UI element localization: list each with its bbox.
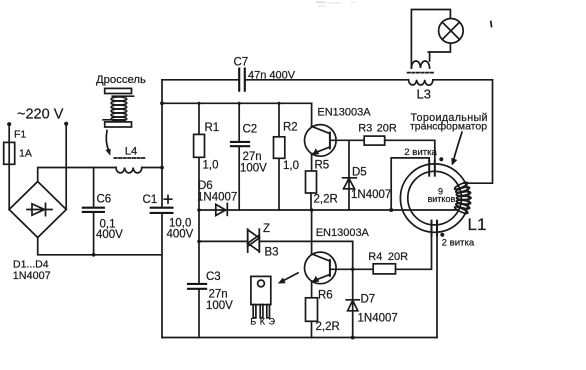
capacitor C6 xyxy=(93,168,95,255)
svg-text:27n: 27n xyxy=(209,289,228,301)
resistor R1 xyxy=(198,103,200,210)
diode D6 xyxy=(216,204,226,215)
label C1 plus xyxy=(164,196,171,204)
svg-text:1N4007: 1N4007 xyxy=(358,313,398,325)
svg-text:витков: витков xyxy=(428,194,456,204)
choke coil xyxy=(111,97,127,121)
svg-text:2 витка: 2 витка xyxy=(404,147,437,158)
svg-text:1N4007: 1N4007 xyxy=(197,192,237,204)
wire AC left to fuse xyxy=(8,124,10,209)
L3 rail right xyxy=(433,79,493,81)
wire AC right xyxy=(65,124,67,210)
svg-text:R4: R4 xyxy=(368,251,382,263)
transistor Q1 EN13003A xyxy=(305,125,337,157)
svg-text:47n 400V: 47n 400V xyxy=(248,69,296,81)
svg-text:R5: R5 xyxy=(315,160,330,172)
choke lead top xyxy=(112,95,133,97)
inductor L4 xyxy=(116,168,142,173)
diac B3 xyxy=(248,229,260,252)
wire L4 to bus xyxy=(142,167,162,169)
toroid 9-turn coil xyxy=(454,181,471,214)
svg-text:B3: B3 xyxy=(265,247,279,259)
svg-text:D5: D5 xyxy=(352,167,367,179)
node phasing dot top xyxy=(439,157,443,161)
svg-text:L4: L4 xyxy=(125,145,138,157)
toroid bottom leads xyxy=(436,235,438,337)
toroid bottom winding ticks xyxy=(432,221,438,236)
bridge rectifier D1...D4 xyxy=(9,182,66,238)
choke lead bottom xyxy=(103,119,124,121)
svg-text:1,0: 1,0 xyxy=(203,160,219,172)
arrow to Q2 xyxy=(282,273,298,281)
diode D5 xyxy=(343,140,357,210)
speck xyxy=(490,22,493,27)
resistor R6 xyxy=(306,298,318,322)
svg-text:Дроссель: Дроссель xyxy=(96,74,146,86)
smudge xyxy=(316,1,356,7)
node Q2 base junction xyxy=(351,268,355,272)
svg-text:D7: D7 xyxy=(361,294,376,306)
core dashes L4 xyxy=(114,157,145,159)
svg-text:C1: C1 xyxy=(143,194,158,206)
C7 rail top xyxy=(162,79,409,81)
mid line xyxy=(199,209,458,211)
svg-text:C6: C6 xyxy=(97,194,112,206)
svg-text:Z: Z xyxy=(263,223,270,235)
svg-text:L3: L3 xyxy=(417,87,431,102)
diode D7 xyxy=(346,269,359,337)
svg-text:C7: C7 xyxy=(234,57,249,69)
resistor R3 xyxy=(364,136,385,145)
lamp secondary winding xyxy=(411,61,429,68)
svg-text:R6: R6 xyxy=(318,290,333,302)
arrow choke to L4 xyxy=(106,131,109,152)
inductor L3 xyxy=(409,80,433,85)
svg-text:1N4007: 1N4007 xyxy=(351,189,391,201)
resistor R4 xyxy=(373,264,395,274)
base wire Q2 xyxy=(330,268,373,270)
node toroid tap xyxy=(389,208,393,212)
node bus plus rail xyxy=(160,166,164,170)
node R1 mid xyxy=(197,208,201,212)
svg-text:C2: C2 xyxy=(243,124,258,136)
lamp loop wires xyxy=(411,10,450,69)
svg-text:100V: 100V xyxy=(206,300,233,312)
toroid L1 ring xyxy=(400,164,468,232)
node mains terminal L xyxy=(7,122,11,126)
vertical R1-B3-C3 xyxy=(198,210,200,338)
node C2 rail2 xyxy=(238,102,241,105)
svg-text:2,2R: 2,2R xyxy=(316,321,340,333)
svg-text:~220 V: ~220 V xyxy=(17,107,64,123)
capacitor C7 xyxy=(239,69,245,91)
resistor R5 xyxy=(306,171,317,193)
capacitor C1 xyxy=(151,208,173,213)
core dashes L3 xyxy=(408,72,435,74)
svg-text:400V: 400V xyxy=(96,229,123,241)
svg-text:F1: F1 xyxy=(14,129,26,141)
svg-text:1,0: 1,0 xyxy=(283,160,299,172)
toroid top-left lead xyxy=(391,158,429,210)
svg-text:400V: 400V xyxy=(167,229,194,241)
rail2 collector rail xyxy=(162,102,312,104)
node B3 junction xyxy=(197,240,201,244)
svg-text:1A: 1A xyxy=(19,148,32,160)
choke bottom flange xyxy=(105,122,132,127)
svg-text:Б К Э: Б К Э xyxy=(250,317,275,327)
node R1 rail2 xyxy=(197,102,200,105)
diac B3 wire xyxy=(199,241,353,269)
svg-text:100V: 100V xyxy=(240,163,267,175)
node bus rail2 xyxy=(160,101,164,105)
svg-text:2,2R: 2,2R xyxy=(314,194,338,206)
svg-text:C3: C3 xyxy=(206,271,221,283)
svg-text:20R: 20R xyxy=(377,122,397,134)
arrow to toroid xyxy=(453,132,462,161)
svg-text:2 витка: 2 витка xyxy=(442,237,475,248)
node C6 bottom xyxy=(92,253,96,257)
wire bridge top to plus rail xyxy=(38,168,116,182)
svg-text:R2: R2 xyxy=(283,122,298,134)
base wire Q1 xyxy=(330,139,364,141)
choke drawing top flange xyxy=(105,88,132,93)
svg-text:L1: L1 xyxy=(468,215,487,234)
bottom rail xyxy=(162,337,437,339)
node mains terminal N xyxy=(64,122,68,126)
node R2 rail2 xyxy=(277,102,280,105)
bridge diode symbol xyxy=(27,203,52,215)
wire 9-turn top to rail xyxy=(464,80,493,183)
svg-text:27n: 27n xyxy=(243,151,262,163)
resistor R2 xyxy=(278,103,280,210)
wire bridge bottom rail xyxy=(38,238,162,338)
capacitor C2 xyxy=(238,103,240,210)
TO-220 package xyxy=(251,276,271,304)
node R5 mid xyxy=(310,208,314,212)
svg-text:R3: R3 xyxy=(358,122,372,134)
bus vertical with C1 xyxy=(161,80,163,255)
svg-text:трансформатор: трансформатор xyxy=(410,121,487,133)
node D7 bottom xyxy=(351,336,355,340)
svg-text:EN13003A: EN13003A xyxy=(316,227,370,239)
lamp EL1 xyxy=(439,19,464,44)
svg-text:1N4007: 1N4007 xyxy=(13,270,51,282)
node phasing dot bottom xyxy=(440,233,444,237)
svg-text:20R: 20R xyxy=(388,251,408,263)
toroid top winding ticks xyxy=(429,161,435,176)
svg-text:EN13003A: EN13003A xyxy=(317,107,371,119)
svg-text:D6: D6 xyxy=(198,180,213,192)
transistor Q2 EN13003A xyxy=(305,252,337,284)
svg-text:R1: R1 xyxy=(205,122,220,134)
capacitor C3 xyxy=(188,284,206,289)
svg-text:D1...D4: D1...D4 xyxy=(13,259,49,271)
fuse F1 xyxy=(4,142,15,164)
